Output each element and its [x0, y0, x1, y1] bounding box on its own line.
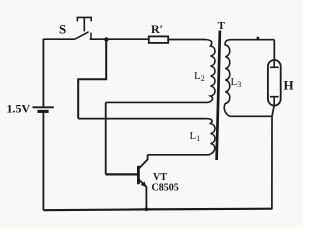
winding L2 (feedback, upper-left of core)	[106, 40, 215, 103]
transistor VT base bar	[137, 166, 140, 184]
battery short negative plate	[37, 110, 48, 113]
wire top-left from battery to switch	[43, 38, 74, 40]
svg-text:L3: L3	[231, 76, 242, 89]
wire node A down-jog to L1 top (stepped)	[78, 40, 106, 119]
svg-text:H: H	[284, 78, 294, 93]
transistor collector lead up to L1 bottom	[139, 155, 148, 169]
lamp H bottom lead	[272, 105, 274, 209]
switch S lever	[75, 32, 89, 40]
switch S fixed contact post	[90, 33, 92, 40]
wire resistor to transformer primary top	[168, 39, 205, 41]
bottom rail wire	[43, 209, 272, 211]
lamp bottom electrode	[270, 97, 279, 105]
svg-text:R′: R′	[151, 22, 163, 36]
battery long positive plate	[33, 106, 54, 108]
junction dot emitter-rail	[145, 207, 149, 211]
svg-text:VT: VT	[153, 172, 167, 183]
svg-text:T: T	[218, 20, 226, 32]
wire L1 top horizontal	[78, 118, 205, 120]
transistor emitter lead with arrow	[139, 180, 146, 210]
wire switch to node to resistor	[90, 38, 149, 40]
push-button cap of switch	[77, 17, 91, 31]
node A junction dot	[104, 37, 108, 41]
small nub artifact on top-right wire	[257, 37, 260, 40]
svg-text:1.5V: 1.5V	[7, 102, 31, 116]
winding L1 (primary, lower-left of core)	[148, 119, 215, 155]
lamp top electrode	[270, 61, 279, 67]
wire base lead	[106, 173, 138, 175]
svg-text:L1: L1	[190, 130, 201, 143]
resistor R' body	[149, 36, 168, 43]
lamp H tube body	[268, 60, 281, 106]
svg-text:C8505: C8505	[152, 183, 179, 194]
svg-text:L2: L2	[194, 70, 205, 83]
transformer core T	[217, 31, 220, 161]
lamp H top lead	[273, 40, 275, 61]
emitter arrowhead	[141, 181, 147, 187]
winding L3 (secondary, right of core)	[224, 40, 274, 117]
battery B 1.5V left vertical wires	[42, 39, 44, 210]
wire L2 bottom down to base	[105, 102, 107, 174]
svg-text:S: S	[59, 22, 66, 37]
